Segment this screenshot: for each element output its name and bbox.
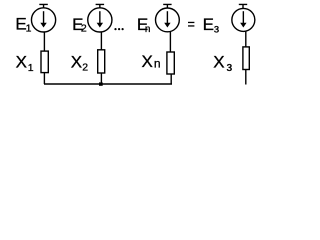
bottom rail wire	[44, 83, 172, 85]
label E2	[72, 15, 87, 34]
source En top terminal	[163, 4, 171, 8]
label X2	[71, 52, 88, 73]
label En	[137, 15, 151, 35]
source E2 top terminal	[96, 4, 105, 8]
wire E2 to X2	[100, 32, 102, 50]
ellipsis dots	[114, 28, 123, 30]
junction dot	[99, 82, 103, 85]
source E1 top terminal	[39, 4, 48, 8]
wire X2 to bottom rail	[100, 73, 102, 84]
svg-text:n: n	[145, 24, 151, 35]
svg-text:X: X	[142, 52, 153, 71]
svg-text:E: E	[203, 15, 214, 34]
svg-text:з: з	[227, 60, 233, 74]
label Xe	[213, 52, 232, 74]
svg-text:1: 1	[26, 22, 32, 34]
wire stub below Xe	[245, 70, 247, 85]
equals sign	[188, 22, 194, 27]
wire X1 to bottom rail	[43, 73, 45, 84]
wire Ee to Xe	[245, 31, 247, 47]
svg-text:2: 2	[82, 62, 88, 74]
source E2 arrow	[97, 11, 103, 27]
source Ee circle	[232, 8, 255, 31]
svg-text:X: X	[213, 52, 224, 71]
wire Xn to bottom rail	[170, 74, 172, 84]
label E1	[15, 15, 31, 35]
wire En to Xn	[169, 31, 171, 52]
source En circle	[156, 8, 180, 32]
svg-text:з: з	[214, 23, 219, 35]
reactance Xe box	[243, 47, 249, 70]
source E1 arrow	[40, 11, 46, 27]
reactance Xn box	[167, 52, 174, 74]
source E1 circle	[31, 8, 55, 32]
source Ee top terminal	[239, 4, 247, 8]
wire E1 to X1	[43, 32, 45, 52]
label Ee	[203, 15, 220, 36]
label X1	[16, 53, 34, 75]
svg-text:n: n	[154, 57, 161, 71]
svg-text:1: 1	[28, 62, 34, 74]
svg-text:2: 2	[81, 22, 87, 34]
svg-text:X: X	[16, 53, 27, 72]
label Xn	[142, 52, 161, 71]
reactance X1 box	[41, 51, 48, 73]
svg-text:X: X	[71, 52, 82, 71]
source En arrow	[164, 11, 170, 27]
source Ee arrow	[240, 11, 246, 27]
reactance X2 box	[98, 50, 105, 73]
source E2 circle	[88, 8, 112, 32]
